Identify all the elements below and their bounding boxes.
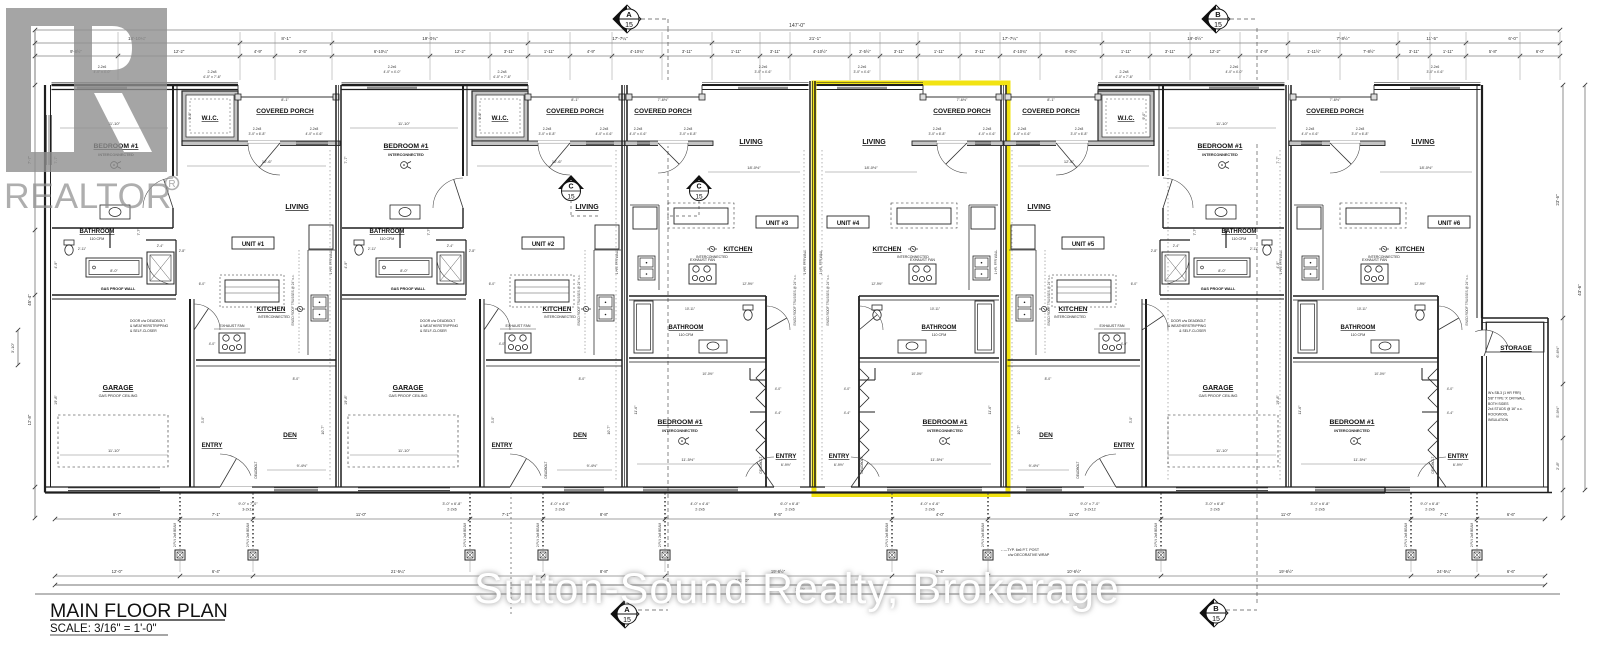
unit 3 toilet <box>743 305 753 310</box>
unit 4 bath/kitchen wall <box>859 295 999 297</box>
unit 6 tub vertical <box>1298 301 1317 353</box>
party wall U3/U4 (in yellow band) <box>809 81 811 487</box>
svg-text:UNIT #4: UNIT #4 <box>837 221 860 227</box>
svg-text:9'-0" x 7'-0": 9'-0" x 7'-0" <box>1080 502 1100 506</box>
svg-text:7'-7": 7'-7" <box>427 228 431 236</box>
unit 1 bedroom window west wall <box>46 115 48 165</box>
svg-text:1'-11": 1'-11" <box>544 49 555 54</box>
svg-text:3'-11": 3'-11" <box>504 49 515 54</box>
svg-text:UNIT #6: UNIT #6 <box>1438 221 1461 227</box>
unit 2 porch face wall <box>472 141 626 146</box>
svg-text:4'-0" x 4'-6": 4'-0" x 4'-6" <box>978 132 996 136</box>
svg-text:12'-2": 12'-2" <box>174 49 185 54</box>
section marker C/15 right <box>686 175 712 189</box>
unit 1 porch window <box>296 140 328 142</box>
svg-text:11'-6": 11'-6" <box>988 405 992 415</box>
svg-text:DEADBOLT: DEADBOLT <box>544 461 548 478</box>
svg-text:7'-8½": 7'-8½" <box>1337 35 1350 41</box>
section line A-A <box>667 28 669 80</box>
top dimension row 2 <box>35 42 1560 44</box>
svg-text:W.I.C.: W.I.C. <box>1118 115 1135 122</box>
svg-text:10'-0½": 10'-0½" <box>911 372 923 376</box>
highlight outline around UNIT #4 (yellow) <box>814 83 1008 495</box>
svg-text:15: 15 <box>567 194 575 201</box>
svg-text:KITCHEN: KITCHEN <box>724 246 753 253</box>
svg-text:INTERCONNECTED: INTERCONNECTED <box>388 153 424 157</box>
overall bottom line 141ft <box>55 584 1545 586</box>
unit 5 toilet <box>1262 240 1272 245</box>
unit 5 porch edge <box>1005 96 1098 98</box>
svg-text:UNIT #2: UNIT #2 <box>532 242 555 248</box>
svg-text:10'-11": 10'-11" <box>930 307 941 311</box>
svg-text:110 CFM: 110 CFM <box>380 237 395 241</box>
svg-text:EXHAUST FAN: EXHAUST FAN <box>690 258 715 262</box>
unit 5 bathroom walls <box>1163 227 1284 229</box>
svg-text:3'-11": 3'-11" <box>1165 49 1176 54</box>
unit 1 hall arc <box>147 260 173 284</box>
unit 3 kitchen counters right wall <box>658 205 660 290</box>
svg-text:19'-6½": 19'-6½" <box>1279 569 1294 574</box>
unit 2 kitchen island <box>515 280 569 302</box>
svg-text:ENTRY: ENTRY <box>492 442 514 449</box>
svg-text:A: A <box>626 10 632 19</box>
svg-text:INSULATION: INSULATION <box>1488 418 1509 422</box>
left secondary dimension <box>17 330 19 365</box>
svg-text:12'-9½": 12'-9½" <box>742 282 754 286</box>
unit 4 closet bifolds <box>859 368 869 408</box>
svg-text:1 HR. FFR WALL: 1 HR. FFR WALL <box>615 249 619 274</box>
unit 4 porch window <box>975 140 991 142</box>
svg-text:12'-9½": 12'-9½" <box>1414 282 1426 286</box>
unit 5 fridge <box>1011 225 1035 249</box>
svg-text:2'-8": 2'-8" <box>469 249 476 253</box>
storage bottom wall extension <box>1385 492 1552 494</box>
svg-text:147'-0": 147'-0" <box>789 23 805 29</box>
svg-text:2-2x8: 2-2x8 <box>600 127 609 131</box>
svg-text:9'-0": 9'-0" <box>1142 112 1146 120</box>
svg-text:4'-0": 4'-0" <box>1121 342 1128 346</box>
svg-text:GARAGE: GARAGE <box>1203 385 1234 392</box>
svg-text:2-2x8: 2-2x8 <box>543 127 552 131</box>
svg-text:10'-7": 10'-7" <box>607 425 611 435</box>
top dimension extension lines <box>34 32 36 80</box>
svg-text:DEN: DEN <box>573 432 587 439</box>
unit 5 living dim <box>1018 165 1149 167</box>
right vertical dimension line outer <box>1584 85 1586 490</box>
svg-text:GAS PROOF WALL: GAS PROOF WALL <box>391 287 426 291</box>
unit 2 bathtub <box>376 258 432 277</box>
svg-text:2 PLY 2x8 BEAM: 2 PLY 2x8 BEAM <box>463 522 467 547</box>
unit 3 kitchen island <box>668 203 734 228</box>
svg-text:3'-11": 3'-11" <box>682 49 693 54</box>
svg-text:2'-4": 2'-4" <box>157 244 164 248</box>
svg-text:3'-0" x 6'-8": 3'-0" x 6'-8" <box>248 132 266 136</box>
unit 5 bathtub <box>1194 258 1250 277</box>
svg-text:2-2x6: 2-2x6 <box>98 65 107 69</box>
svg-text:11'-5": 11'-5" <box>1426 36 1438 41</box>
svg-text:2-2x6: 2-2x6 <box>759 65 768 69</box>
svg-text:LIVING: LIVING <box>575 204 599 211</box>
unit 1 bathroom walls <box>52 227 173 229</box>
svg-text:EXHAUST FAN: EXHAUST FAN <box>220 324 245 328</box>
svg-text:4'-9": 4'-9" <box>254 49 263 54</box>
svg-text:ENGD ROOF TRUSSES @ 24" o.c.: ENGD ROOF TRUSSES @ 24" o.c. <box>1465 274 1469 325</box>
unit 1 bedroom block top wall <box>52 82 239 84</box>
svg-text:& WEATHERSTRIPPING: & WEATHERSTRIPPING <box>420 324 459 328</box>
unit 2 bedroom door <box>433 178 463 208</box>
svg-text:C: C <box>696 184 701 191</box>
svg-text:2-2x8: 2-2x8 <box>498 70 507 74</box>
unit 1 porch entry door <box>248 143 280 175</box>
svg-text:2-2x6: 2-2x6 <box>447 508 457 512</box>
unit 6 bedroom dim <box>1301 463 1430 465</box>
svg-text:4'-10½": 4'-10½" <box>813 49 828 54</box>
svg-text:2 PLY 2x8 BEAM: 2 PLY 2x8 BEAM <box>536 522 540 547</box>
svg-text:GAS PROOF CEILING: GAS PROOF CEILING <box>1199 394 1238 398</box>
unit 2 garage walls <box>342 298 466 300</box>
svg-text:2-2x6: 2-2x6 <box>1210 508 1220 512</box>
unit 5 garage door opening <box>1176 487 1268 489</box>
unit 5 garage/entry door arc <box>1142 304 1168 330</box>
svg-text:3-2x12: 3-2x12 <box>242 508 254 512</box>
svg-text:2-2x8: 2-2x8 <box>983 127 992 131</box>
section line B-B <box>1256 28 1258 80</box>
unit 2 vanity <box>390 205 420 219</box>
svg-text:4'-0" x 4'-6": 4'-0" x 4'-6" <box>920 502 940 506</box>
unit 1 entry door at bottom <box>220 487 252 489</box>
svg-text:8'-1": 8'-1" <box>281 98 289 102</box>
svg-text:1 HR. FFR WALL: 1 HR. FFR WALL <box>994 249 998 274</box>
svg-text:3'-0" x 6'-8": 3'-0" x 6'-8" <box>928 132 946 136</box>
unit 6 bath/bed wall <box>1293 357 1438 359</box>
svg-text:4'-4": 4'-4" <box>775 411 782 415</box>
unit 4 bath/bed wall <box>859 357 999 359</box>
right vertical dimension line inner <box>1562 85 1564 518</box>
svg-text:KITCHEN: KITCHEN <box>1059 306 1088 313</box>
unit 2 porch window <box>586 140 614 142</box>
unit 6 porch posts <box>1371 94 1377 100</box>
unit 4 bedroom window bottom <box>887 487 982 489</box>
unit 1 garage dim <box>60 454 168 456</box>
svg-text:2-2x8: 2-2x8 <box>1018 127 1027 131</box>
svg-text:3'-0" x 6'-8": 3'-0" x 6'-8" <box>1070 132 1088 136</box>
svg-text:ENTRY: ENTRY <box>202 442 224 449</box>
party wall U4/U5 (yellow right) <box>1000 85 1002 487</box>
svg-text:KITCHEN: KITCHEN <box>543 306 572 313</box>
svg-text:LIVING: LIVING <box>285 204 309 211</box>
svg-text:GARAGE: GARAGE <box>103 385 134 392</box>
unit 5 entry door at bottom <box>1084 487 1116 489</box>
svg-text:4'-9": 4'-9" <box>344 261 348 269</box>
svg-text:Sutton-Sound Realty, Brokerage: Sutton-Sound Realty, Brokerage <box>474 565 1120 613</box>
unit 6 bath vanity <box>1371 340 1399 353</box>
svg-text:5'-9½": 5'-9½" <box>1555 406 1560 418</box>
svg-text:4'-0": 4'-0" <box>844 387 851 391</box>
unit 1 porch door opening <box>248 141 280 143</box>
svg-text:2 PLY 2x8 BEAM: 2 PLY 2x8 BEAM <box>981 522 985 547</box>
unit 5 kitchen counter along party wall <box>1035 250 1037 355</box>
unit 3 entry door bottom <box>774 487 800 489</box>
svg-text:3'-11": 3'-11" <box>770 49 781 54</box>
unit 2 porch edge <box>528 96 625 98</box>
section marker A/15 bottom <box>611 600 639 628</box>
svg-text:STORAGE: STORAGE <box>1500 345 1532 352</box>
unit 1 living dim <box>187 165 326 167</box>
unit 5 porch face wall <box>1004 141 1154 146</box>
svg-text:8'-8": 8'-8" <box>600 512 609 517</box>
svg-text:BEDROOM #1: BEDROOM #1 <box>658 419 703 426</box>
unit 3 living dim <box>708 171 800 173</box>
svg-text:2-2x6: 2-2x6 <box>388 65 397 69</box>
unit 4 bedroom smoke detector <box>940 438 947 445</box>
svg-text:8'-0": 8'-0" <box>1218 269 1226 273</box>
svg-text:2 PLY 2x8 BEAM: 2 PLY 2x8 BEAM <box>885 522 889 547</box>
svg-text:11'-10": 11'-10" <box>398 121 411 126</box>
svg-text:W's SB-3 (1 HR FRR): W's SB-3 (1 HR FRR) <box>1488 391 1521 395</box>
svg-text:2 PLY 2x8 BEAM: 2 PLY 2x8 BEAM <box>1154 522 1158 547</box>
unit 1 bedroom/living wall <box>172 85 174 176</box>
svg-text:KITCHEN: KITCHEN <box>1396 246 1425 253</box>
svg-text:2'-5½": 2'-5½" <box>859 49 871 54</box>
svg-text:8'-0": 8'-0" <box>1045 377 1053 381</box>
left vertical dimension line <box>34 30 36 518</box>
svg-text:1'-11": 1'-11" <box>1443 49 1454 54</box>
svg-text:6'-0" x 6'-8": 6'-0" x 6'-8" <box>780 502 800 506</box>
svg-text:3'-0" x 6'-8": 3'-0" x 6'-8" <box>538 132 556 136</box>
svg-text:17'-7¼": 17'-7¼" <box>1002 36 1018 41</box>
svg-text:2-2x8: 2-2x8 <box>1120 70 1129 74</box>
svg-text:6'-9½": 6'-9½" <box>781 463 792 467</box>
svg-text:W.I.C.: W.I.C. <box>492 115 509 122</box>
unit 2 garage door opening <box>358 487 450 489</box>
svg-text:12'-2": 12'-2" <box>1210 49 1221 54</box>
svg-text:4'-0" x 4'-0": 4'-0" x 4'-0" <box>1225 70 1243 74</box>
storage door arc <box>1475 330 1508 347</box>
svg-text:4'-9": 4'-9" <box>587 49 596 54</box>
section marker A/15 top <box>613 5 641 33</box>
svg-text:4'-0": 4'-0" <box>936 512 945 517</box>
svg-text:5'-8": 5'-8" <box>1489 49 1498 54</box>
unit 6 porch window <box>1301 140 1322 142</box>
svg-text:12'-2": 12'-2" <box>455 49 466 54</box>
svg-text:2-2x6: 2-2x6 <box>1425 508 1435 512</box>
svg-text:11'-6": 11'-6" <box>1298 405 1302 415</box>
unit 3 fridge <box>633 207 657 229</box>
svg-text:2-2x6: 2-2x6 <box>925 508 935 512</box>
unit 5 porch entry door <box>1056 143 1088 175</box>
unit 4 kitchen counters right wall <box>968 205 970 290</box>
unit 6 bedroom window bottom <box>1315 487 1410 489</box>
svg-text:LIVING: LIVING <box>862 139 886 146</box>
svg-text:11'-10": 11'-10" <box>1216 448 1229 453</box>
svg-text:INTERCONNECTED: INTERCONNECTED <box>927 429 963 433</box>
svg-text:1 HR. FFR WALL: 1 HR. FFR WALL <box>819 249 823 274</box>
unit 3 kitchen sinks <box>638 256 655 280</box>
unit 6 label box UNIT <box>1428 216 1470 228</box>
svg-text:2-2x8: 2-2x8 <box>253 127 262 131</box>
unit 2 den window <box>564 487 604 489</box>
unit 1 W.I.C. walls <box>182 91 238 141</box>
section marker B/15 bottom <box>1200 599 1228 627</box>
svg-text:4'-9": 4'-9" <box>1260 49 1269 54</box>
svg-text:2-2x6: 2-2x6 <box>555 508 565 512</box>
svg-text:LIVING: LIVING <box>739 139 763 146</box>
svg-text:6'-0": 6'-0" <box>489 282 496 286</box>
unit 6 hallway door arc <box>1438 306 1462 330</box>
svg-text:←—TYP. 6x6 P.T. POST: ←—TYP. 6x6 P.T. POST <box>1000 548 1040 552</box>
svg-text:4'-4": 4'-4" <box>1447 411 1454 415</box>
svg-text:B: B <box>1215 10 1221 19</box>
building bottom wall <box>45 491 1385 493</box>
unit 6 kitchen island <box>1340 203 1406 228</box>
unit 6 porch door <box>1330 141 1360 143</box>
section marker C/15 left <box>558 175 584 189</box>
unit 4 porch edge <box>923 96 1002 98</box>
svg-text:6'-0": 6'-0" <box>1508 36 1518 41</box>
svg-text:9'-5": 9'-5" <box>774 512 783 517</box>
svg-text:9'-4½": 9'-4½" <box>587 464 598 468</box>
unit 4 porch posts <box>920 94 926 100</box>
svg-text:7'-7": 7'-7" <box>1193 228 1197 236</box>
svg-text:10'-11": 10'-11" <box>685 307 696 311</box>
section marker B/15 top <box>1202 5 1230 33</box>
svg-text:6'-9½": 6'-9½" <box>1453 463 1464 467</box>
svg-text:8'-0": 8'-0" <box>110 269 118 273</box>
svg-text:2'-4": 2'-4" <box>1173 244 1180 248</box>
svg-text:2-2x8: 2-2x8 <box>310 127 319 131</box>
svg-text:3'-0" x 4'-6": 3'-0" x 4'-6" <box>754 70 772 74</box>
svg-text:18'-0½": 18'-0½" <box>747 165 761 170</box>
unit 5 label box UNIT <box>1062 237 1104 249</box>
svg-text:2'-4": 2'-4" <box>447 244 454 248</box>
unit 4 kitchen island <box>891 203 957 228</box>
unit 1 garage walls <box>52 298 176 300</box>
svg-text:2-2x8: 2-2x8 <box>1356 127 1365 131</box>
beam lines and posts <box>179 493 181 548</box>
unit 5 garage dashed slab <box>1168 415 1278 467</box>
unit 3 bedroom window bottom <box>643 487 738 489</box>
unit 2 bathroom walls <box>342 227 463 229</box>
unit 4 label box UNIT <box>827 216 869 228</box>
svg-text:4'-0" x 4'-6": 4'-0" x 4'-6" <box>690 502 710 506</box>
unit 3 porch face wall <box>625 141 713 146</box>
unit 2 smoke detector <box>401 162 408 169</box>
svg-text:12'-6": 12'-6" <box>1064 159 1075 164</box>
svg-text:ENGD ROOF TRUSSES @ 24" o.c.: ENGD ROOF TRUSSES @ 24" o.c. <box>577 274 581 325</box>
unit 1 kitchen wall bottom <box>196 359 337 361</box>
svg-text:4'-9": 4'-9" <box>1276 261 1280 269</box>
svg-text:11'-5½": 11'-5½" <box>681 457 695 462</box>
svg-text:2'-8": 2'-8" <box>179 249 186 253</box>
svg-text:DOOR c/w DEADBOLT: DOOR c/w DEADBOLT <box>1171 319 1206 323</box>
svg-text:INTERCONNECTED: INTERCONNECTED <box>258 315 290 319</box>
svg-text:BATHROOM: BATHROOM <box>1341 325 1376 331</box>
unit 4 living window top <box>837 85 887 87</box>
svg-text:BEDROOM #1: BEDROOM #1 <box>923 419 968 426</box>
svg-text:10'-0½": 10'-0½" <box>702 372 714 376</box>
unit 1 shower <box>147 252 174 284</box>
svg-text:4'-0" x 4'-6": 4'-0" x 4'-6" <box>595 132 613 136</box>
svg-text:7'-1": 7'-1" <box>212 512 221 517</box>
svg-text:2-2x8: 2-2x8 <box>1306 127 1315 131</box>
svg-text:110 CFM: 110 CFM <box>90 237 105 241</box>
svg-text:18'-0½": 18'-0½" <box>864 165 878 170</box>
unit 1 kitchen counter along party wall <box>307 250 309 355</box>
unit 5 bedroom/living wall <box>1162 85 1164 176</box>
unit 6 bedroom smoke detector <box>1351 438 1358 445</box>
svg-text:KITCHEN: KITCHEN <box>873 246 902 253</box>
svg-text:BEDROOM #1: BEDROOM #1 <box>1198 143 1243 150</box>
svg-text:ENTRY: ENTRY <box>829 453 851 460</box>
svg-text:EXHAUST FAN: EXHAUST FAN <box>1362 258 1387 262</box>
svg-text:DEN: DEN <box>283 432 297 439</box>
svg-text:2'-11": 2'-11" <box>1250 247 1259 251</box>
svg-text:12'-6": 12'-6" <box>262 159 273 164</box>
svg-text:2-2x6: 2-2x6 <box>785 508 795 512</box>
svg-text:8'-1": 8'-1" <box>1047 98 1055 102</box>
svg-text:12'-6": 12'-6" <box>552 159 563 164</box>
svg-text:8'-0": 8'-0" <box>293 377 301 381</box>
svg-text:2-2x6: 2-2x6 <box>1315 508 1325 512</box>
svg-text:GARAGE: GARAGE <box>393 385 424 392</box>
svg-text:REALTOR: REALTOR <box>4 176 172 216</box>
unit 5 porch door opening <box>1056 141 1088 143</box>
svg-text:C: C <box>568 184 573 191</box>
svg-text:COVERED PORCH: COVERED PORCH <box>256 108 314 115</box>
svg-text:BATHROOM: BATHROOM <box>1222 229 1257 235</box>
svg-text:2 PLY 2x8 BEAM: 2 PLY 2x8 BEAM <box>246 522 250 547</box>
svg-text:9'-0": 9'-0" <box>478 112 482 120</box>
unit 2 garage/entry door arc <box>484 304 510 330</box>
svg-text:COVERED PORCH: COVERED PORCH <box>1306 108 1364 115</box>
unit 4 tub vertical <box>975 301 994 353</box>
unit 6 closet bifolds <box>1428 368 1438 408</box>
unit 5 kitchen wall bottom <box>1008 359 1141 361</box>
svg-text:DOOR c/w DEADBOLT: DOOR c/w DEADBOLT <box>130 319 165 323</box>
unit 1 garage dashed slab <box>58 415 168 467</box>
unit 1 bedroom window top <box>77 85 127 87</box>
svg-text:BEDROOM #1: BEDROOM #1 <box>384 143 429 150</box>
svg-text:4'-0": 4'-0" <box>499 342 506 346</box>
svg-text:2-2x8: 2-2x8 <box>684 127 693 131</box>
unit 4 living dim <box>825 171 917 173</box>
unit 1 den dims <box>267 469 326 471</box>
svg-text:KITCHEN: KITCHEN <box>257 306 286 313</box>
unit 1 garage/entry door arc <box>194 304 220 330</box>
unit 4 bedroom dim <box>867 463 991 465</box>
unit 6 living dim <box>1380 171 1472 173</box>
svg-text:GAS PROOF WALL: GAS PROOF WALL <box>101 287 136 291</box>
lower dimension row A <box>55 518 1545 520</box>
unit 6 kitchen sinks <box>1302 256 1319 280</box>
unit 5 kitchen island <box>1057 280 1111 302</box>
svg-text:COVERED PORCH: COVERED PORCH <box>933 108 991 115</box>
unit 3 tub vertical <box>634 301 653 353</box>
svg-text:24'-5¼": 24'-5¼" <box>1437 569 1452 574</box>
svg-text:2-2x6: 2-2x6 <box>858 65 867 69</box>
svg-text:ENTRY: ENTRY <box>1114 442 1136 449</box>
unit 4 living top wall <box>817 82 924 84</box>
unit 6 entry door bottom <box>1446 487 1472 489</box>
overall top dimension line 147ft <box>35 29 1560 31</box>
svg-text:9'-0" x 7'-0": 9'-0" x 7'-0" <box>238 502 258 506</box>
svg-text:2 PLY 2x8 BEAM: 2 PLY 2x8 BEAM <box>658 522 662 547</box>
svg-text:BOTH SIDES: BOTH SIDES <box>1488 402 1509 406</box>
svg-text:2x4 STUDS @ 16" o.c.: 2x4 STUDS @ 16" o.c. <box>1488 407 1523 411</box>
unit 2 shower <box>437 252 464 284</box>
unit 5 vanity <box>1206 205 1236 219</box>
unit 3 living window top <box>738 85 788 87</box>
